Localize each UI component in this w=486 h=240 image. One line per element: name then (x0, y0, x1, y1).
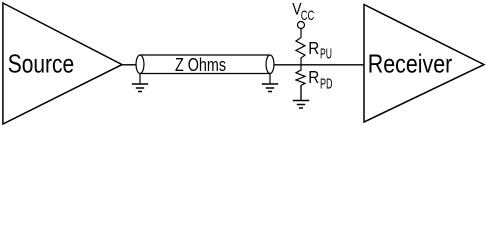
svg-text:Source: Source (8, 51, 75, 79)
svg-text:PD: PD (320, 77, 333, 93)
svg-text:PU: PU (320, 47, 332, 63)
svg-text:Receiver: Receiver (368, 51, 453, 79)
svg-text:CC: CC (301, 7, 315, 23)
svg-text:Z Ohms: Z Ohms (175, 54, 226, 75)
svg-text:R: R (308, 67, 319, 87)
svg-text:R: R (308, 38, 319, 58)
